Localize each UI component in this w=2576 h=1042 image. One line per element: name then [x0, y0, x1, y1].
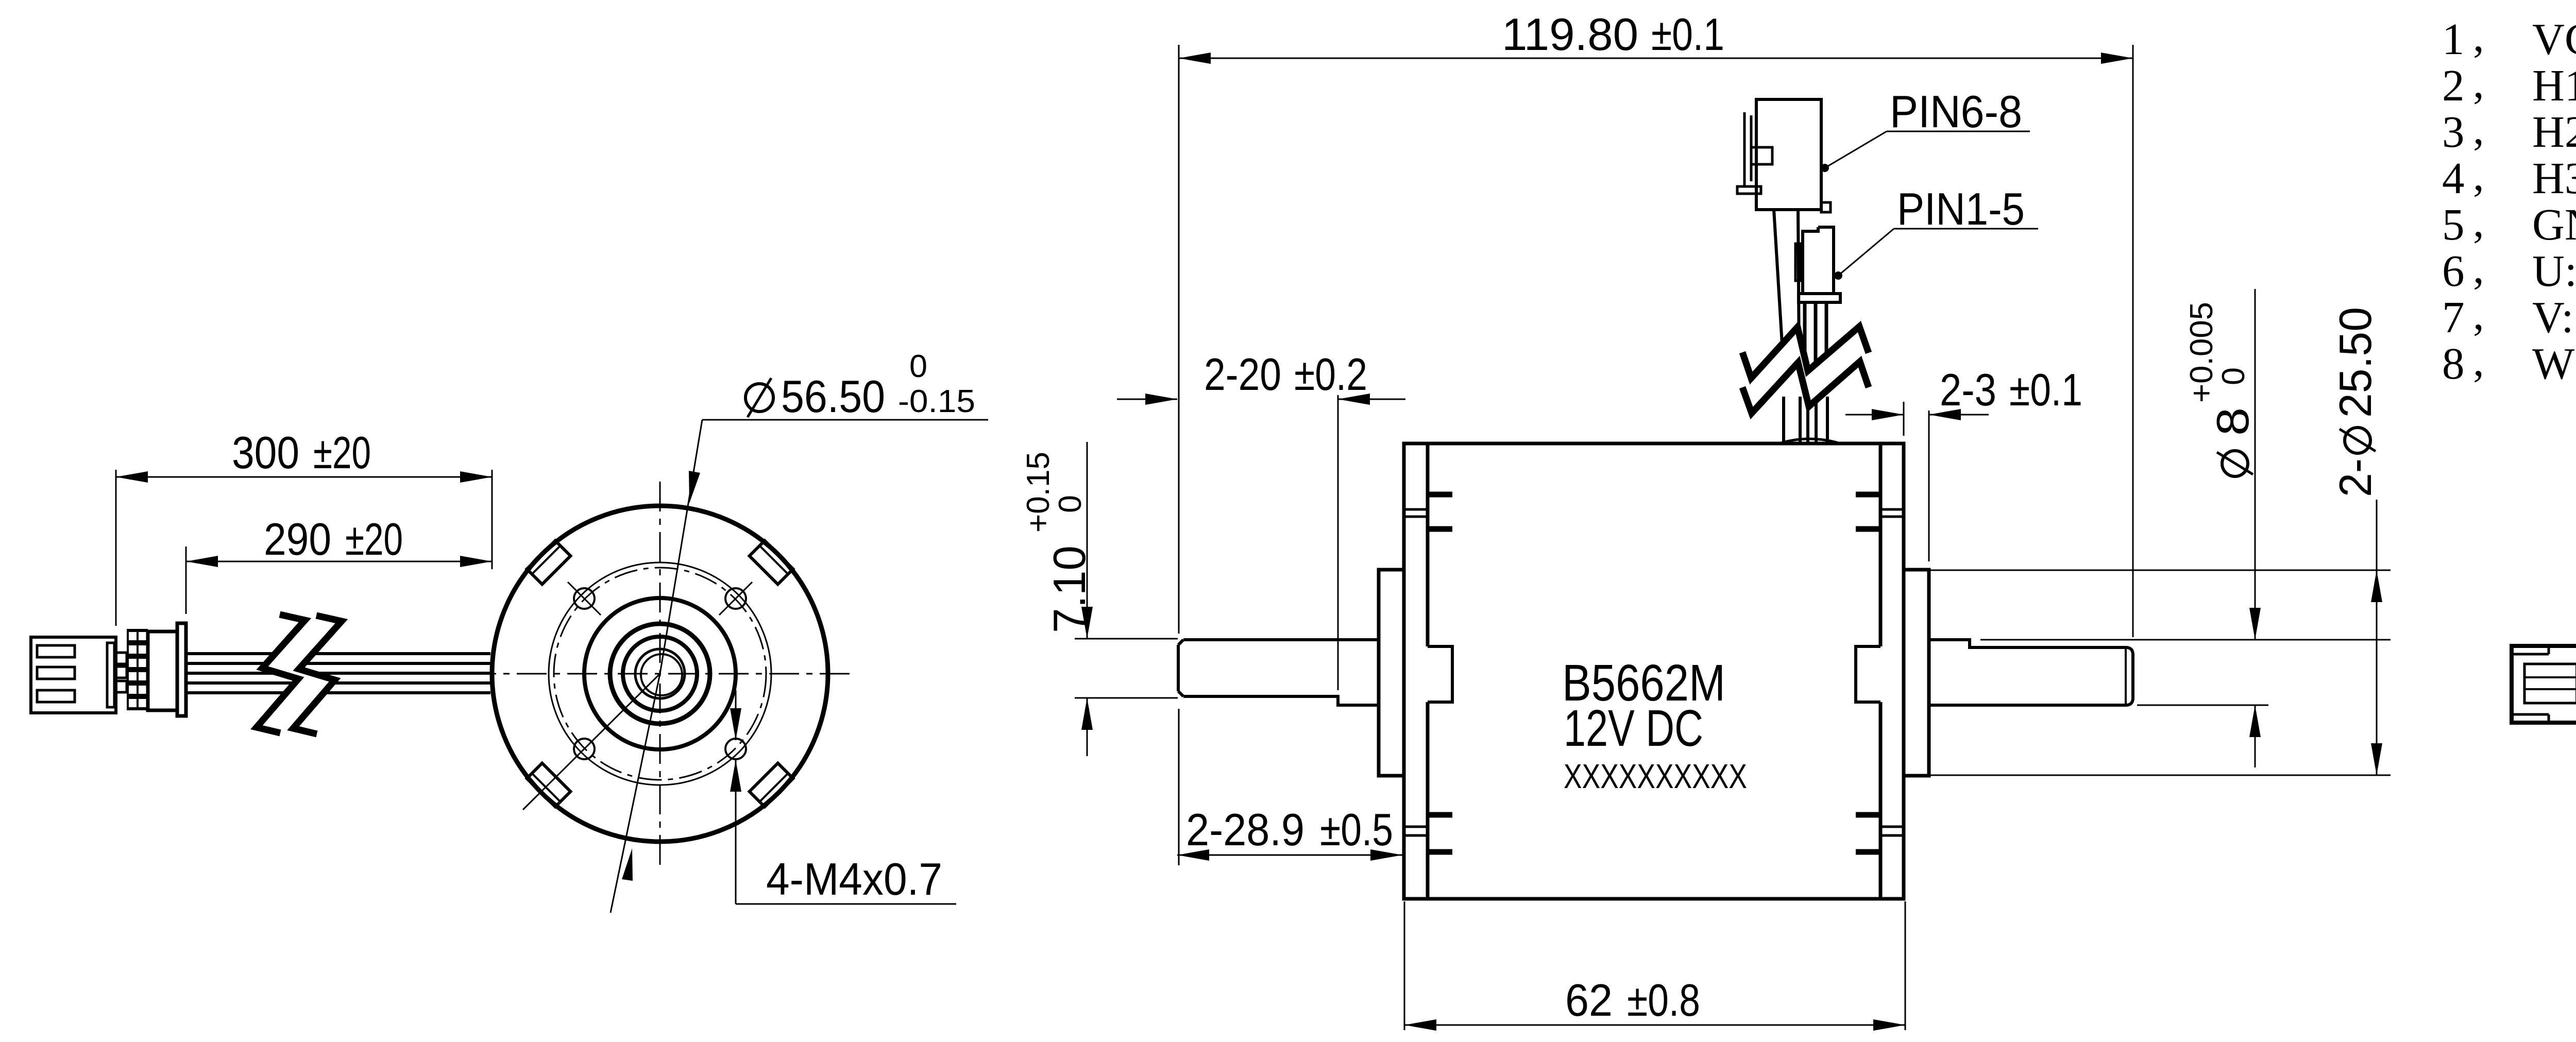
svg-text:0: 0: [909, 349, 927, 384]
svg-text:±0.5: ±0.5: [1320, 804, 1393, 855]
svg-text:2: 2: [2442, 60, 2465, 110]
svg-text:300: 300: [232, 427, 299, 478]
svg-text:119.80: 119.80: [1502, 9, 1638, 60]
svg-text:±20: ±20: [313, 427, 371, 478]
svg-text:,: ,: [2473, 104, 2484, 153]
svg-text:±0.8: ±0.8: [1627, 975, 1700, 1026]
svg-text:-0.15: -0.15: [898, 384, 975, 419]
svg-text:,: ,: [2473, 243, 2484, 293]
svg-text:4: 4: [2442, 153, 2465, 203]
svg-text:±0.1: ±0.1: [2009, 364, 2082, 415]
svg-text:W: W phase;: W: W phase;: [2532, 338, 2576, 388]
svg-text:2-3: 2-3: [1940, 364, 1996, 415]
svg-text:,: ,: [2473, 150, 2484, 200]
svg-text:H2: V phase HALL signal outp: H2: V phase HALL signal output;: [2532, 107, 2576, 157]
svg-text:,: ,: [2473, 11, 2484, 61]
svg-text:,: ,: [2473, 57, 2484, 107]
svg-text:PIN6-8: PIN6-8: [1890, 86, 2022, 137]
svg-text:0: 0: [2216, 367, 2251, 385]
svg-text:XXXXXXXXXX: XXXXXXXXXX: [1564, 757, 1747, 796]
svg-text:VCC: HALL power supply input: VCC: HALL power supply input (+5v): [2532, 14, 2576, 64]
svg-text:,: ,: [2473, 335, 2484, 385]
svg-text:±20: ±20: [345, 514, 403, 565]
svg-text:5: 5: [2442, 199, 2465, 249]
svg-text:62: 62: [1565, 975, 1613, 1026]
svg-text:+0.005: +0.005: [2184, 302, 2219, 403]
svg-text:,: ,: [2473, 289, 2484, 339]
svg-text:4-M4x0.7: 4-M4x0.7: [766, 853, 942, 904]
svg-text:±0.1: ±0.1: [1651, 9, 1724, 60]
svg-text:6: 6: [2442, 246, 2465, 296]
svg-text:8: 8: [2207, 407, 2258, 436]
svg-text:H3: W phase HALL signal outp: H3: W phase HALL signal output;: [2532, 153, 2576, 203]
svg-text:2-20: 2-20: [1204, 349, 1281, 400]
svg-text:12V DC: 12V DC: [1564, 699, 1703, 757]
svg-text:2-: 2-: [2330, 458, 2381, 497]
svg-text:H1: U phase HALL signal outp: H1: U phase HALL signal output;: [2532, 60, 2576, 110]
svg-text:GND:HALL ground;: GND:HALL ground;: [2532, 199, 2576, 249]
svg-text:290: 290: [264, 514, 331, 565]
svg-text:3: 3: [2442, 107, 2465, 157]
svg-text:0: 0: [1053, 495, 1088, 513]
svg-text:56.50: 56.50: [781, 371, 885, 422]
svg-text:8: 8: [2442, 338, 2465, 388]
svg-text:7: 7: [2442, 292, 2465, 342]
svg-text:,: ,: [2473, 196, 2484, 246]
svg-text:2-28.9: 2-28.9: [1186, 804, 1304, 855]
svg-text:+0.15: +0.15: [1021, 452, 1056, 533]
svg-text:1: 1: [2442, 14, 2465, 64]
svg-text:25.50: 25.50: [2330, 307, 2381, 418]
svg-text:±0.2: ±0.2: [1294, 349, 1367, 400]
svg-text:U: U phase: U: U phase: [2532, 246, 2576, 296]
svg-text:PIN1-5: PIN1-5: [1897, 183, 2025, 234]
svg-text:V: V phase;: V: V phase;: [2532, 292, 2576, 342]
